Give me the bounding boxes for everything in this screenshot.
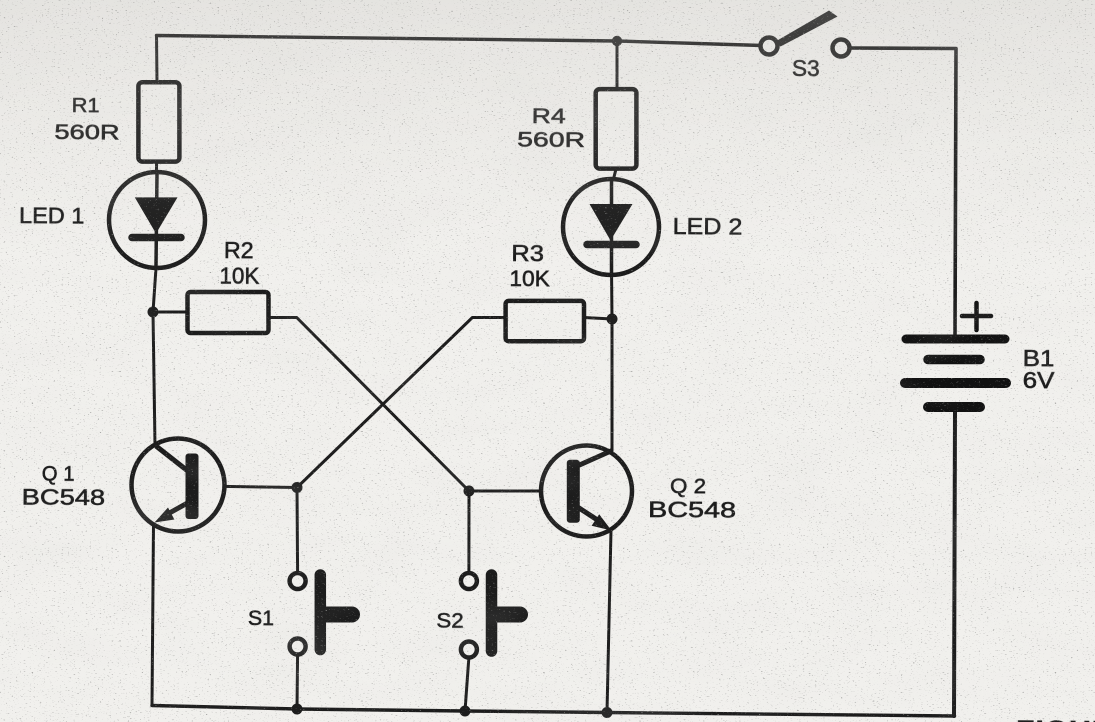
node D junction dot (607, 314, 618, 325)
LED LED2 (563, 179, 659, 275)
wire left column R1/LED1 (156, 36, 157, 269)
wire S1 to bottom rail (296, 654, 300, 710)
junction dot S2 ground (460, 706, 471, 717)
wire LED2 to node D to Q2 collector (610, 268, 614, 451)
wire bottom ground rail (152, 706, 955, 717)
pushbutton S2 (461, 573, 520, 658)
wire S3 to top-right corner down to battery (850, 48, 957, 334)
wire mid column R4/LED2 (612, 41, 617, 268)
battery B1 (905, 303, 1006, 407)
LED LED1 (109, 172, 205, 268)
node A junction dot (148, 307, 159, 318)
wire R2 to node C cross-coupling diagonal (269, 318, 470, 492)
wire Q1 base to node B (198, 486, 298, 488)
resistor R3 (506, 301, 584, 341)
switch S3 (761, 11, 850, 57)
wire Q2 base to node C (469, 490, 567, 493)
wire LED1 to node A (153, 268, 156, 446)
wire R3 to node D (584, 318, 612, 320)
wire Q2 emitter to bottom rail (607, 530, 611, 713)
node junction dot top rail (612, 36, 622, 46)
resistor R1 (138, 82, 179, 161)
wire battery negative to bottom rail (954, 412, 955, 716)
junction dot Q2 ground (602, 707, 613, 718)
resistor R4 (596, 89, 637, 169)
transistor Q1 (132, 439, 225, 532)
wire S2 to bottom rail (465, 657, 469, 711)
paper shading (0, 0, 1095, 260)
resistor R2 (188, 292, 269, 333)
wire R3 to node B cross-coupling diagonal (297, 318, 506, 488)
node B junction dot (292, 482, 303, 493)
wire Q1 emitter to bottom rail (152, 524, 154, 706)
wire node B to S1 (296, 488, 300, 574)
transistor Q2 (541, 446, 632, 537)
pushbutton S1 (290, 573, 352, 655)
node C junction dot (464, 486, 475, 497)
wire node A to R2 (153, 311, 187, 314)
wire node C to S2 (467, 491, 470, 573)
junction dot S1 ground (292, 704, 303, 715)
wire top positive rail (157, 36, 763, 46)
